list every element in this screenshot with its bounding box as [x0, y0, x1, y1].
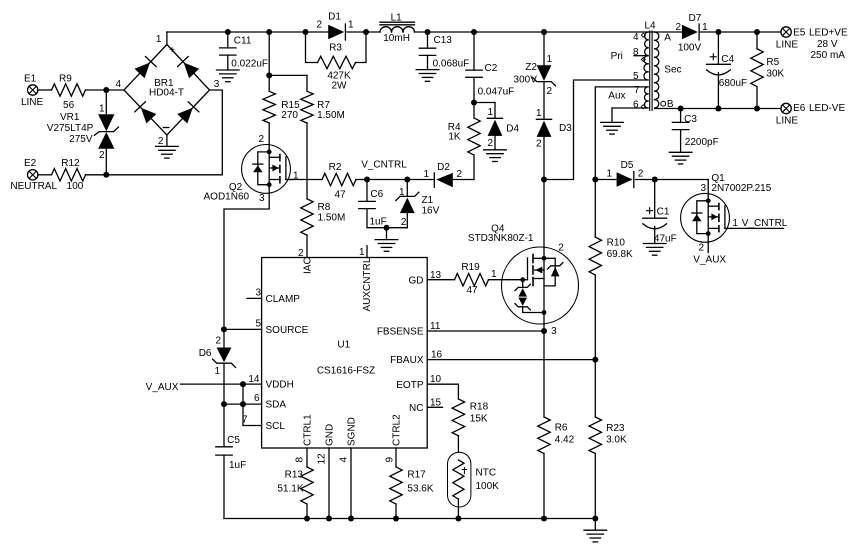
svg-text:LINE: LINE: [776, 116, 799, 127]
ground below transformer pin 6: [601, 108, 624, 134]
wire: secondary return rail to E6: [678, 106, 781, 112]
wire: V_AUX to VDDH/SDA/SCL: [181, 381, 262, 425]
svg-text:R18: R18: [470, 402, 489, 413]
svg-text:2: 2: [316, 20, 322, 31]
svg-text:100V: 100V: [678, 43, 702, 54]
svg-text:2: 2: [457, 169, 463, 180]
node V_AUX at Q1 source: [693, 255, 726, 266]
diode D3: [536, 108, 572, 180]
wire: GD to R19: [427, 279, 454, 281]
zener Z1 16V: [396, 180, 440, 229]
wire: EOTP to R18: [427, 384, 458, 399]
svg-text:Pri: Pri: [611, 51, 623, 62]
wire: V_CNTRL gate line: [288, 177, 434, 183]
svg-text:R2: R2: [329, 162, 342, 173]
svg-text:0.068uF: 0.068uF: [433, 59, 470, 70]
capacitor C2 0.047uF: [466, 32, 515, 106]
resistor R17 53.6K: [390, 448, 434, 519]
svg-text:VDDH: VDDH: [266, 380, 294, 391]
ground at bottom rail: [584, 519, 607, 542]
svg-text:R3: R3: [329, 43, 342, 54]
resistor R2 47: [322, 162, 356, 201]
resistor R9 56: [52, 73, 86, 111]
svg-text:CTRL2: CTRL2: [391, 414, 402, 446]
svg-text:3.0K: 3.0K: [606, 435, 627, 446]
svg-text:D6: D6: [199, 348, 212, 359]
wire: rail drop to R15/R7: [266, 32, 307, 78]
capacitor C4 680uF: [707, 32, 748, 109]
svg-text:HD04-T: HD04-T: [149, 88, 184, 99]
svg-text:EOTP: EOTP: [396, 380, 424, 391]
svg-text:SOURCE: SOURCE: [266, 325, 309, 336]
diode D7 100V: [675, 13, 708, 54]
svg-text:V275LT4P: V275LT4P: [47, 123, 94, 134]
svg-text:V_CNTRL: V_CNTRL: [361, 159, 407, 170]
svg-text:1.50M: 1.50M: [317, 110, 345, 121]
svg-text:R12: R12: [61, 158, 80, 169]
wire: GND pin to rail: [328, 448, 330, 519]
diode D2: [423, 162, 474, 187]
svg-text:1: 1: [214, 366, 220, 377]
svg-text:275V: 275V: [69, 134, 93, 145]
svg-text:1: 1: [99, 104, 105, 115]
svg-text:V_AUX: V_AUX: [146, 382, 179, 393]
transistor Q4 STD3NK80Z-1: [468, 223, 579, 337]
svg-text:3: 3: [259, 193, 265, 204]
svg-text:14: 14: [248, 374, 260, 385]
wire: drain node to transformer pin 5: [541, 80, 648, 183]
wire: Q2 source to U1 SOURCE / aux chain: [221, 193, 269, 332]
svg-text:2: 2: [298, 248, 304, 259]
svg-text:2: 2: [547, 86, 553, 97]
svg-text:8: 8: [295, 457, 306, 463]
svg-text:CS1616-FSZ: CS1616-FSZ: [317, 366, 375, 377]
terminal E1 LINE: [21, 73, 44, 108]
svg-text:4: 4: [339, 457, 350, 463]
svg-text:R5: R5: [766, 57, 779, 68]
svg-text:FBAUX: FBAUX: [390, 355, 424, 366]
transformer L4: [608, 20, 682, 110]
svg-text:5: 5: [255, 319, 261, 330]
svg-text:U1: U1: [337, 340, 350, 351]
svg-text:8: 8: [633, 47, 639, 58]
transistor Q1 2N7002P.215: [681, 173, 772, 253]
svg-text:Sec: Sec: [664, 65, 681, 76]
svg-text:3: 3: [700, 183, 706, 194]
transistor Q2 AOD1N60: [204, 134, 299, 204]
svg-text:10mH: 10mH: [383, 33, 410, 44]
svg-text:1: 1: [487, 107, 493, 118]
svg-text:250 mA: 250 mA: [811, 50, 846, 61]
wire: AC line input row E1 to bridge: [38, 87, 124, 93]
svg-text:2: 2: [487, 138, 493, 149]
wire: D5 to C1 and Q1 drain: [636, 177, 709, 194]
svg-text:SDA: SDA: [266, 400, 287, 411]
wire: SGND pin to rail: [350, 448, 352, 519]
svg-text:3: 3: [255, 288, 261, 299]
ground below C3: [669, 152, 692, 164]
svg-text:GND: GND: [324, 424, 335, 446]
terminal E6 LED-VE: [776, 103, 846, 126]
svg-text:1: 1: [399, 187, 405, 198]
svg-text:D7: D7: [689, 13, 702, 24]
resistor R4 1K: [448, 103, 480, 180]
svg-text:10: 10: [430, 374, 442, 385]
wire: secondary output rail to E5: [700, 29, 781, 35]
svg-text:1: 1: [732, 218, 738, 229]
svg-text:C2: C2: [485, 63, 498, 74]
svg-text:V_AUX: V_AUX: [693, 255, 726, 266]
svg-text:C5: C5: [227, 435, 240, 446]
resistor R12 100: [52, 158, 86, 192]
varistor VR1 V275LT4P 275V: [47, 90, 119, 175]
ground below C13: [416, 70, 439, 82]
resistor R6 4.42: [538, 331, 575, 519]
ground below C1: [643, 244, 666, 256]
svg-text:2: 2: [638, 169, 644, 180]
resistor R7 1.50M: [301, 75, 345, 198]
svg-text:D4: D4: [506, 123, 519, 134]
resistor R13 51.1K: [277, 448, 313, 519]
terminal E2 NEUTRAL: [10, 158, 57, 192]
wire: Q4 drain to snubber node: [543, 180, 545, 248]
wire: transformer pin 7 to aux node: [595, 87, 648, 180]
svg-text:1: 1: [423, 169, 429, 180]
wire: neutral row E2 to bridge node 3: [38, 90, 222, 178]
svg-text:CLAMP: CLAMP: [266, 294, 301, 305]
resistor R8 1.50M: [301, 199, 345, 258]
svg-text:Aux: Aux: [608, 91, 625, 102]
thermistor NTC 100K: [448, 452, 500, 518]
svg-text:LED-VE: LED-VE: [809, 103, 845, 114]
svg-text:300V: 300V: [514, 75, 538, 86]
svg-text:15K: 15K: [470, 414, 488, 425]
svg-text:1: 1: [536, 108, 542, 119]
svg-text:C1: C1: [657, 206, 670, 217]
diode D1: [316, 11, 354, 40]
bridge rectifier BR1 HD04-T: [116, 34, 220, 147]
svg-text:1.50M: 1.50M: [318, 213, 346, 224]
svg-text:R13: R13: [285, 470, 304, 481]
zener D6: [199, 329, 236, 404]
svg-text:V_CNTRL: V_CNTRL: [742, 218, 788, 229]
svg-text:GD: GD: [409, 275, 424, 286]
svg-text:2: 2: [401, 217, 407, 228]
svg-text:1: 1: [547, 54, 553, 65]
wire: Q1 gate to V_CNTRL: [732, 218, 784, 229]
capacitor C6 1uF: [359, 180, 408, 231]
svg-text:R9: R9: [59, 73, 72, 84]
svg-text:1uF: 1uF: [229, 460, 246, 471]
svg-text:Z1: Z1: [422, 195, 434, 206]
svg-text:C6: C6: [370, 189, 383, 200]
wire: rectified top rail: [167, 29, 655, 45]
svg-text:C11: C11: [234, 35, 252, 46]
svg-text:NC: NC: [409, 403, 423, 414]
svg-text:2: 2: [258, 134, 264, 145]
svg-text:2: 2: [215, 335, 221, 346]
svg-text:4: 4: [633, 32, 639, 43]
svg-text:E5: E5: [793, 27, 806, 38]
ground below bridge node 2: [156, 135, 179, 158]
svg-text:L4: L4: [644, 20, 656, 31]
svg-text:A: A: [664, 32, 671, 43]
svg-text:6: 6: [254, 393, 260, 404]
svg-text:C3: C3: [684, 114, 697, 125]
svg-text:2: 2: [558, 242, 564, 253]
capacitor C11 0.022uF: [220, 32, 268, 70]
svg-text:2: 2: [99, 150, 105, 161]
svg-text:0.047uF: 0.047uF: [478, 87, 515, 98]
svg-text:9: 9: [385, 457, 396, 463]
svg-text:R23: R23: [606, 423, 625, 434]
capacitor C5 1uF: [216, 404, 246, 518]
svg-text:16: 16: [431, 350, 443, 361]
svg-text:100: 100: [67, 181, 84, 192]
svg-text:IAC: IAC: [302, 257, 313, 274]
resistor R18 15K: [452, 399, 488, 452]
svg-text:56: 56: [63, 100, 75, 111]
svg-text:47: 47: [334, 190, 346, 201]
svg-text:D2: D2: [437, 162, 450, 173]
op-amp U1 CS1616-FSZ (controller IC): [242, 246, 443, 465]
svg-text:SCL: SCL: [266, 421, 286, 432]
resistor R15 270: [263, 75, 300, 144]
node V_CNTRL at Q1 gate: [742, 218, 788, 229]
zener Z2 300V: [514, 32, 556, 119]
svg-text:2: 2: [158, 136, 164, 147]
svg-text:1: 1: [348, 20, 354, 31]
svg-text:AOD1N60: AOD1N60: [204, 192, 250, 203]
inductor L1 10mH: [380, 12, 415, 44]
svg-text:Z2: Z2: [525, 62, 537, 73]
svg-text:SGND: SGND: [346, 417, 357, 446]
svg-text:VR1: VR1: [60, 112, 80, 123]
svg-text:1K: 1K: [448, 132, 461, 143]
svg-text:LINE: LINE: [21, 97, 44, 108]
svg-text:47: 47: [466, 285, 478, 296]
svg-text:1: 1: [156, 34, 162, 45]
ground below D4: [484, 150, 507, 162]
svg-text:69.8K: 69.8K: [607, 249, 633, 260]
svg-text:D3: D3: [559, 123, 572, 134]
svg-text:NEUTRAL: NEUTRAL: [10, 181, 57, 192]
wire: bottom ground rail: [224, 516, 598, 522]
resistor R23 3.0K: [589, 360, 627, 519]
svg-text:4: 4: [116, 79, 122, 90]
capacitor C13 0.068uF: [419, 32, 469, 70]
svg-text:53.6K: 53.6K: [407, 484, 433, 495]
ground below C11: [217, 70, 240, 82]
ground below C6/Z1: [375, 228, 398, 252]
svg-text:5: 5: [633, 71, 639, 82]
svg-text:R19: R19: [461, 262, 480, 273]
svg-text:C13: C13: [434, 35, 453, 46]
svg-text:E6: E6: [793, 103, 806, 114]
svg-text:100K: 100K: [476, 481, 500, 492]
node V_CNTRL: [361, 159, 407, 170]
svg-text:AUXCNTRL: AUXCNTRL: [362, 257, 373, 311]
node V_AUX: [146, 382, 179, 393]
svg-text:2W: 2W: [332, 80, 348, 91]
svg-text:R17: R17: [407, 470, 426, 481]
svg-text:L1: L1: [391, 12, 403, 23]
svg-text:R6: R6: [555, 423, 568, 434]
svg-text:LINE: LINE: [776, 40, 799, 51]
diode D4: [474, 103, 520, 150]
svg-text:3: 3: [551, 326, 557, 337]
svg-text:E2: E2: [24, 158, 37, 169]
wire: R19 to Q4 gate: [489, 269, 508, 280]
svg-text:1: 1: [702, 22, 708, 33]
svg-text:28 V: 28 V: [817, 39, 838, 50]
svg-text:FBSENSE: FBSENSE: [377, 327, 424, 338]
svg-text:STD3NK80Z-1: STD3NK80Z-1: [468, 233, 534, 244]
wire: FBAUX line: [427, 357, 598, 363]
svg-text:4.42: 4.42: [555, 435, 575, 446]
svg-text:3: 3: [214, 79, 220, 90]
svg-text:+: +: [169, 45, 175, 56]
svg-text:R10: R10: [607, 238, 626, 249]
svg-text:2: 2: [675, 22, 681, 33]
resistor R3 427K 2W: [306, 32, 367, 91]
svg-text:0.022uF: 0.022uF: [231, 59, 268, 70]
svg-text:51.1K: 51.1K: [277, 484, 303, 495]
svg-text:1: 1: [491, 269, 497, 280]
svg-text:1: 1: [606, 169, 612, 180]
svg-text:2: 2: [536, 138, 542, 149]
svg-text:E1: E1: [24, 73, 37, 84]
resistor R19 47: [455, 262, 489, 296]
svg-text:CTRL1: CTRL1: [302, 414, 313, 446]
svg-text:2: 2: [698, 242, 704, 253]
svg-text:LED+VE: LED+VE: [809, 27, 848, 38]
svg-text:B: B: [667, 99, 674, 110]
svg-text:D5: D5: [621, 160, 634, 171]
terminal E5 LED+VE: [776, 27, 848, 61]
svg-text:12: 12: [317, 453, 328, 465]
svg-text:R8: R8: [318, 202, 331, 213]
svg-text:6: 6: [633, 100, 639, 111]
svg-text:1uF: 1uF: [370, 217, 387, 228]
svg-text:30K: 30K: [766, 69, 784, 80]
svg-text:680uF: 680uF: [719, 78, 747, 89]
svg-text:16V: 16V: [422, 206, 440, 217]
svg-text:1: 1: [359, 247, 365, 258]
svg-text:NTC: NTC: [476, 468, 497, 479]
svg-text:C4: C4: [721, 54, 734, 65]
capacitor C1 47uF: [643, 180, 677, 245]
capacitor C3 2200pF: [672, 109, 718, 153]
wire: Q1 source stub: [707, 242, 709, 252]
resistor R5 30K: [751, 32, 785, 109]
svg-text:270: 270: [281, 110, 298, 121]
svg-text:2N7002P.215: 2N7002P.215: [711, 183, 771, 194]
wire: FBSENSE to Q4 source: [427, 324, 547, 334]
resistor R10 69.8K: [589, 180, 633, 360]
svg-text:2200pF: 2200pF: [685, 137, 719, 148]
diode D5: [592, 160, 643, 188]
svg-text:D1: D1: [328, 11, 341, 22]
